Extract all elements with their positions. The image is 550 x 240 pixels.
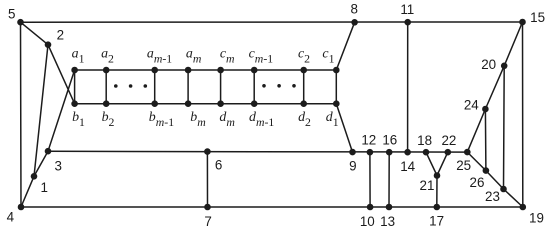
wire bottom edge 4-7-10-13-17-19 bbox=[21, 206, 523, 208]
svg-text:c2: c2 bbox=[298, 47, 310, 66]
node 23 bbox=[500, 186, 507, 193]
svg-text:dm: dm bbox=[219, 110, 235, 129]
svg-text:am-1: am-1 bbox=[147, 47, 172, 66]
node 10 bbox=[367, 204, 374, 211]
wire 20-24 bbox=[485, 66, 504, 109]
wire rung am-1-bm-1 bbox=[154, 70, 156, 104]
svg-text:6: 6 bbox=[215, 158, 222, 173]
node 12 bbox=[367, 149, 374, 156]
node 2 bbox=[45, 41, 52, 48]
svg-text:11: 11 bbox=[400, 2, 414, 17]
svg-text:2: 2 bbox=[57, 27, 64, 42]
svg-text:19: 19 bbox=[529, 210, 544, 225]
wire 3-a1 bbox=[48, 70, 75, 151]
wire rung cm-dm bbox=[220, 70, 222, 104]
wire 21-17 bbox=[436, 176, 438, 208]
ellipsis right dot 1 bbox=[262, 84, 266, 88]
node 11 bbox=[404, 19, 411, 26]
wire ladder bottom b1-d1 bbox=[75, 103, 337, 105]
node 16 bbox=[386, 149, 393, 156]
svg-text:21: 21 bbox=[420, 178, 435, 193]
svg-text:18: 18 bbox=[417, 133, 432, 148]
svg-text:bm-1: bm-1 bbox=[149, 110, 174, 129]
svg-text:14: 14 bbox=[400, 159, 415, 174]
svg-text:a1: a1 bbox=[72, 47, 85, 66]
svg-text:4: 4 bbox=[7, 210, 15, 225]
node dm bbox=[217, 100, 224, 107]
node 8 bbox=[351, 19, 358, 26]
wire 6-7 bbox=[206, 152, 208, 207]
node a1 bbox=[71, 67, 78, 74]
node 3 bbox=[45, 148, 52, 155]
svg-text:d2: d2 bbox=[298, 110, 311, 129]
svg-text:7: 7 bbox=[204, 214, 211, 229]
wire d1-9 bbox=[336, 104, 352, 152]
wire 16-13 bbox=[388, 152, 390, 207]
svg-text:1: 1 bbox=[40, 180, 47, 195]
svg-text:b2: b2 bbox=[102, 110, 115, 129]
node bm bbox=[185, 100, 192, 107]
wire rung a2-b2 bbox=[105, 70, 107, 104]
node 20 bbox=[501, 63, 508, 70]
svg-text:24: 24 bbox=[464, 98, 479, 113]
svg-text:23: 23 bbox=[485, 189, 500, 204]
node am-1 bbox=[151, 67, 158, 74]
svg-text:dm-1: dm-1 bbox=[249, 110, 274, 129]
node 6 bbox=[204, 148, 211, 155]
wire 26-23 bbox=[486, 171, 504, 189]
svg-text:25: 25 bbox=[456, 158, 471, 173]
svg-text:15: 15 bbox=[530, 10, 545, 25]
wire 1-3 bbox=[34, 151, 48, 176]
wire 12-10 bbox=[369, 152, 371, 207]
wire 24-25 bbox=[467, 109, 485, 152]
wire 2-b1 bbox=[48, 45, 75, 104]
svg-text:cm-1: cm-1 bbox=[249, 47, 274, 66]
node d1 bbox=[333, 100, 340, 107]
node 13 bbox=[386, 204, 393, 211]
node cm bbox=[217, 67, 224, 74]
wire 15-20 bbox=[504, 22, 522, 66]
node 22 bbox=[445, 149, 452, 156]
ellipsis right dot 3 bbox=[292, 84, 296, 88]
svg-text:3: 3 bbox=[54, 158, 61, 173]
wire rung c2-d2 bbox=[303, 70, 305, 104]
wire rung a1-b1 bbox=[74, 70, 76, 104]
node c2 bbox=[300, 67, 307, 74]
node 26 bbox=[483, 167, 490, 174]
svg-text:bm: bm bbox=[190, 110, 206, 129]
wire 24-26 bbox=[484, 109, 487, 171]
svg-text:10: 10 bbox=[360, 214, 375, 229]
node 7 bbox=[204, 204, 211, 211]
node 14 bbox=[404, 149, 411, 156]
wire 25-26 bbox=[467, 152, 486, 171]
wire 11-14 bbox=[407, 22, 409, 152]
node 15 bbox=[519, 19, 526, 26]
wire 21-22 bbox=[437, 152, 448, 175]
svg-text:am: am bbox=[186, 47, 202, 66]
svg-text:26: 26 bbox=[470, 175, 485, 190]
svg-text:d1: d1 bbox=[326, 110, 339, 129]
node a2 bbox=[103, 67, 110, 74]
wire rung am-bm bbox=[187, 70, 189, 104]
node 17 bbox=[434, 204, 441, 211]
node bm-1 bbox=[151, 100, 158, 107]
node 4 bbox=[18, 204, 25, 211]
wire 18-21 bbox=[426, 152, 437, 175]
svg-text:16: 16 bbox=[382, 133, 397, 148]
node dm-1 bbox=[251, 100, 258, 107]
node 19 bbox=[520, 204, 527, 211]
ellipsis right dot 2 bbox=[277, 84, 281, 88]
wire rung cm-1-dm-1 bbox=[253, 70, 255, 104]
svg-text:22: 22 bbox=[441, 133, 456, 148]
svg-text:cm: cm bbox=[220, 47, 235, 66]
node cm-1 bbox=[251, 67, 258, 74]
ellipsis left dot 2 bbox=[129, 84, 133, 88]
svg-text:20: 20 bbox=[481, 57, 496, 72]
svg-text:9: 9 bbox=[349, 158, 356, 173]
node 5 bbox=[17, 19, 24, 26]
svg-text:17: 17 bbox=[429, 214, 444, 229]
svg-text:a2: a2 bbox=[101, 47, 114, 66]
node 1 bbox=[31, 173, 38, 180]
svg-text:5: 5 bbox=[8, 6, 15, 21]
svg-text:13: 13 bbox=[380, 214, 395, 229]
wire right edge 15-19 bbox=[522, 22, 524, 207]
svg-text:12: 12 bbox=[361, 133, 376, 148]
wire left edge 5-4 bbox=[20, 22, 23, 207]
svg-text:c1: c1 bbox=[322, 47, 334, 66]
node 21 bbox=[434, 172, 441, 179]
node c1 bbox=[333, 67, 340, 74]
svg-text:8: 8 bbox=[350, 2, 357, 17]
node am bbox=[185, 67, 192, 74]
wire 23-19 bbox=[504, 189, 523, 207]
ellipsis left dot 3 bbox=[144, 84, 148, 88]
node 9 bbox=[349, 149, 356, 156]
svg-text:b1: b1 bbox=[72, 110, 85, 129]
wire 5-2 bbox=[21, 22, 49, 45]
node d2 bbox=[300, 100, 307, 107]
wire rung c1-d1 bbox=[335, 70, 337, 104]
wire 20-23 bbox=[503, 66, 506, 189]
node 25 bbox=[464, 149, 471, 156]
node b1 bbox=[71, 100, 78, 107]
node b2 bbox=[103, 100, 110, 107]
wire 2-1 bbox=[34, 45, 48, 177]
node 24 bbox=[482, 106, 489, 113]
wire 1-4 bbox=[21, 176, 34, 207]
ellipsis left dot 1 bbox=[114, 84, 118, 88]
wire c1-8 bbox=[336, 22, 354, 70]
wire top edge 5-8-11-15 bbox=[21, 21, 523, 23]
node 18 bbox=[423, 149, 430, 156]
wire middle row 3-6-9-12-16-14-18-22-25 bbox=[48, 150, 467, 153]
wire ladder top a1-c1 bbox=[75, 69, 337, 71]
